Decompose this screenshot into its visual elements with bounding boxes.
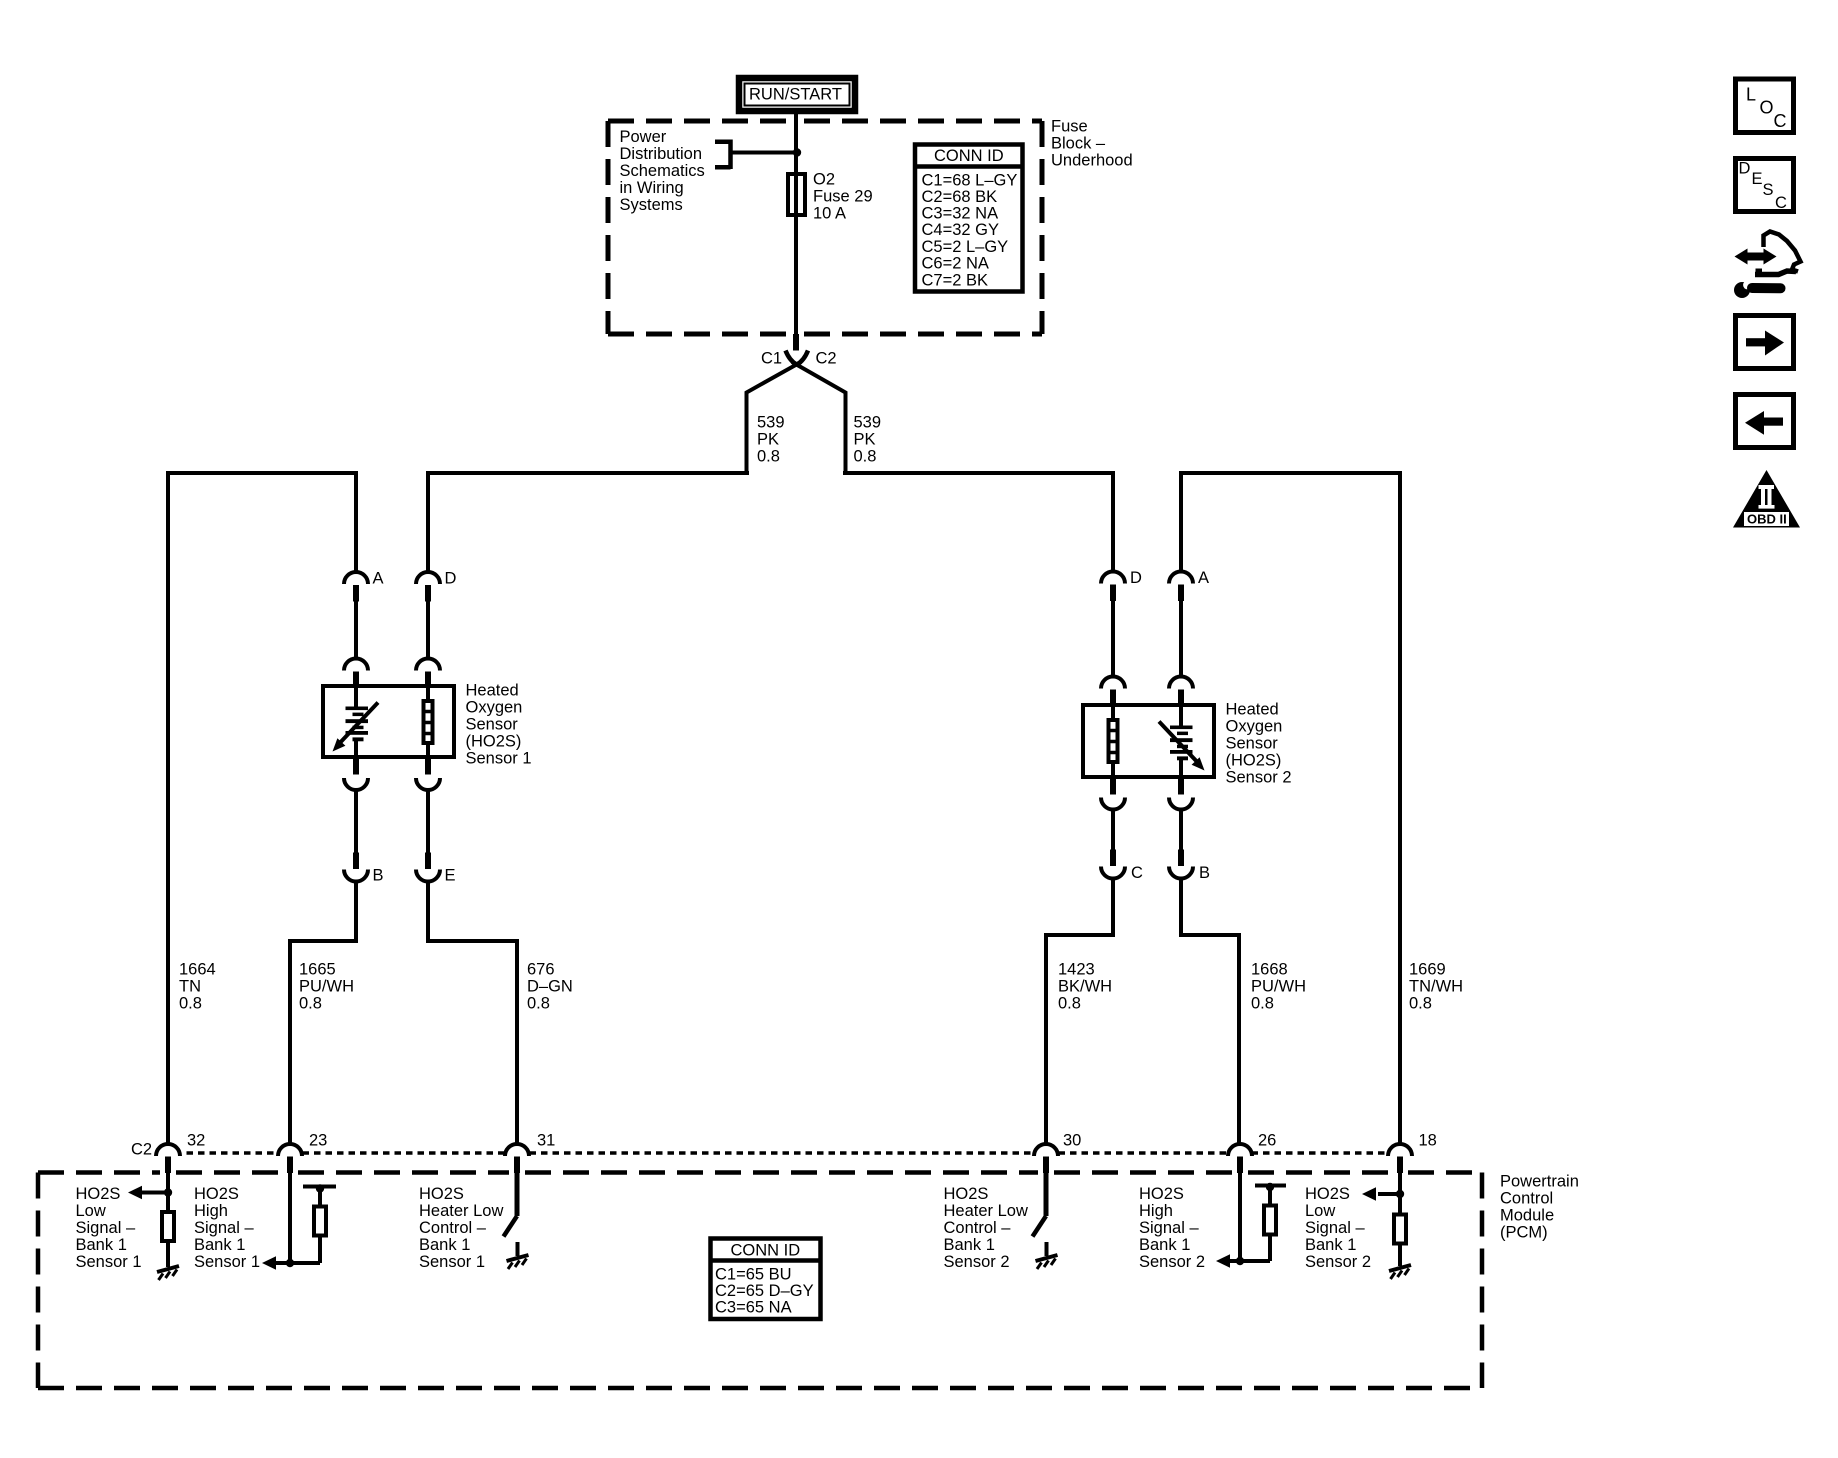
- svg-text:BK/WH: BK/WH: [1058, 978, 1112, 996]
- pin 26 stub: [1237, 1157, 1243, 1174]
- node: pin32 junction dot: [164, 1188, 172, 1196]
- label Heated Oxygen Sensor (HO2S) Sensor 2: [1226, 701, 1292, 787]
- svg-text:Bank 1: Bank 1: [944, 1236, 995, 1254]
- heated oxygen sensor 2 box: [1083, 705, 1214, 777]
- sensor2 sensing element battery stack: [1170, 707, 1193, 776]
- sensor2 heater element: [1109, 707, 1118, 776]
- svg-text:32: 32: [187, 1132, 205, 1150]
- svg-text:1669: 1669: [1409, 961, 1446, 979]
- svg-text:E: E: [1752, 170, 1763, 188]
- svg-text:Systems: Systems: [620, 196, 683, 214]
- sensor2 below-box left arc: [1101, 798, 1125, 810]
- svg-text:Fuse: Fuse: [1051, 118, 1088, 136]
- svg-text:D: D: [445, 570, 457, 588]
- sensor2 below-box right stub: [1178, 778, 1184, 795]
- svg-text:D–GN: D–GN: [527, 978, 573, 996]
- pin 31 connector arc: [505, 1144, 529, 1156]
- sensor1 inline connector right arc: [416, 659, 440, 671]
- resistor pin18: [1394, 1215, 1406, 1244]
- svg-text:(PCM): (PCM): [1500, 1224, 1548, 1242]
- label HO2S Low Signal Bank 1 Sensor 2: [1305, 1185, 1371, 1271]
- svg-text:0.8: 0.8: [757, 448, 780, 466]
- pin 18 stub: [1397, 1157, 1403, 1174]
- label HO2S Heater Low Control Bank 1 Sensor 2: [944, 1185, 1028, 1271]
- svg-text:HO2S: HO2S: [1305, 1185, 1350, 1203]
- fuse block underhood dashed box: [608, 121, 1042, 334]
- sensor1 below-box right stub: [425, 758, 431, 775]
- sensor2 below-box left stub: [1110, 778, 1116, 795]
- svg-text:Heater Low: Heater Low: [944, 1202, 1028, 1220]
- svg-text:Control –: Control –: [944, 1219, 1012, 1237]
- svg-text:(HO2S): (HO2S): [1226, 752, 1282, 770]
- pin 32 connector arc: [156, 1144, 180, 1156]
- svg-text:0.8: 0.8: [179, 995, 202, 1013]
- node: pin26 junction dot: [1236, 1257, 1244, 1265]
- sensor1 inline connector left stub: [353, 672, 359, 689]
- pin 18 internal: low signal sense resistor to ground: [1378, 1173, 1400, 1214]
- node: pin18 junction dot: [1396, 1190, 1404, 1198]
- connector E arc: [416, 870, 440, 882]
- wire: sensor1 heater drop to connector D: [426, 471, 430, 573]
- svg-text:PK: PK: [854, 431, 876, 449]
- wire: A to sensor2 inline connector: [1179, 601, 1183, 677]
- CONN ID table fuse block: [915, 145, 1023, 292]
- label wire 1664 TN 0.8: [179, 961, 216, 1013]
- svg-text:Oxygen: Oxygen: [466, 699, 523, 717]
- sensor2 connector D arc: [1101, 572, 1125, 584]
- svg-text:E: E: [445, 867, 456, 885]
- svg-text:0.8: 0.8: [1058, 995, 1081, 1013]
- label HO2S High Signal Bank 1 Sensor 1: [194, 1185, 260, 1271]
- pin 18 connector arc: [1388, 1144, 1412, 1156]
- label wire 539 PK 0.8 right: [854, 414, 882, 466]
- svg-text:Low: Low: [1305, 1202, 1335, 1220]
- connector D pin stub: [425, 585, 431, 602]
- svg-text:O2: O2: [813, 171, 835, 189]
- fuse O2 Fuse 29 10 A: [788, 171, 873, 223]
- label HO2S High Signal Bank 1 Sensor 2: [1139, 1185, 1205, 1271]
- svg-text:Schematics: Schematics: [620, 162, 705, 180]
- svg-text:1423: 1423: [1058, 961, 1095, 979]
- connector E pin stub: [425, 853, 431, 870]
- svg-text:Signal –: Signal –: [194, 1219, 254, 1237]
- PCM CONN ID table: [711, 1239, 821, 1320]
- sensor2 inline connector left arc: [1101, 677, 1125, 689]
- resistor pin23: [314, 1207, 326, 1236]
- wire: sensor2 heater drop to connector D: [1111, 471, 1115, 573]
- svg-text:D: D: [1130, 569, 1142, 587]
- label Power Distribution Schematics in Wiring Systems: [620, 128, 705, 214]
- node: bias rail dot pin26: [1266, 1183, 1274, 1191]
- svg-text:C3=65 NA: C3=65 NA: [715, 1299, 792, 1317]
- svg-text:676: 676: [527, 961, 555, 979]
- connector B pin stub: [353, 853, 359, 870]
- sensor1 below-box right arc: [416, 778, 440, 790]
- svg-text:C: C: [1774, 111, 1787, 131]
- svg-text:539: 539: [854, 414, 882, 432]
- arrowhead pin18 low signal: [1362, 1187, 1376, 1201]
- svg-text:HO2S: HO2S: [944, 1185, 989, 1203]
- wire: signal bus right horizontal: [1179, 471, 1402, 475]
- pin 32 internal: low signal sense resistor to ground: [140, 1173, 168, 1211]
- pin 23 stub: [287, 1157, 293, 1174]
- svg-text:539: 539: [757, 414, 785, 432]
- wire: signal bus left horizontal: [166, 471, 358, 475]
- svg-text:Bank 1: Bank 1: [76, 1236, 127, 1254]
- svg-text:30: 30: [1063, 1132, 1081, 1150]
- sensor1 sensing element battery stack: [346, 688, 369, 757]
- wire: RUN/START down to fuse: [794, 111, 798, 174]
- svg-text:Sensor 1: Sensor 1: [194, 1253, 260, 1271]
- wire: sensor1 signal drop to connector A: [354, 471, 358, 573]
- svg-text:C: C: [1131, 864, 1143, 882]
- svg-text:Bank 1: Bank 1: [1305, 1236, 1356, 1254]
- svg-text:Sensor 1: Sensor 1: [76, 1253, 142, 1271]
- wire: heater feed right horizontal: [843, 471, 1115, 475]
- PCM dashed border box: [38, 1173, 1482, 1389]
- sensor2 connector A arc: [1169, 572, 1193, 584]
- sensor2 below-box right arc: [1169, 798, 1193, 810]
- svg-text:Distribution: Distribution: [620, 145, 703, 163]
- svg-text:RUN/START: RUN/START: [749, 86, 842, 104]
- svg-text:O: O: [1760, 98, 1774, 118]
- svg-text:1665: 1665: [299, 961, 336, 979]
- sensor2 connector D stub: [1110, 585, 1116, 602]
- wire: E down and jog right to pin 31: [426, 880, 519, 1145]
- label wire 1669 TN/WH 0.8: [1409, 961, 1463, 1013]
- svg-text:Underhood: Underhood: [1051, 152, 1133, 170]
- svg-text:Sensor 2: Sensor 2: [1305, 1253, 1371, 1271]
- svg-text:Signal –: Signal –: [1139, 1219, 1199, 1237]
- sensor2 inline connector left stub: [1110, 690, 1116, 707]
- wire: 539 PK left diagonal: [747, 362, 802, 475]
- ground pin18: [1389, 1265, 1411, 1279]
- svg-text:A: A: [1198, 569, 1209, 587]
- svg-text:Module: Module: [1500, 1207, 1554, 1225]
- svg-text:Low: Low: [76, 1202, 106, 1220]
- wire: sensor2 signal drop to connector A: [1179, 471, 1183, 573]
- wire: heater feed left horizontal: [426, 471, 749, 475]
- svg-text:Sensor 2: Sensor 2: [944, 1253, 1010, 1271]
- svg-text:Bank 1: Bank 1: [194, 1236, 245, 1254]
- pin 30 stub: [1043, 1157, 1049, 1174]
- arrowhead pin23 high signal: [262, 1256, 276, 1270]
- svg-text:PK: PK: [757, 431, 779, 449]
- svg-text:C1=65 BU: C1=65 BU: [715, 1266, 792, 1284]
- label HO2S Low Signal Bank 1 Sensor 1: [76, 1185, 142, 1271]
- label wire 539 PK 0.8 left: [757, 414, 785, 466]
- svg-text:0.8: 0.8: [1409, 995, 1432, 1013]
- arrowhead pin26 high signal: [1216, 1254, 1230, 1268]
- pin 31 stub: [514, 1157, 520, 1174]
- wire: sensor2 left to connector C: [1111, 808, 1115, 850]
- svg-text:Bank 1: Bank 1: [1139, 1236, 1190, 1254]
- node: pin23 junction dot: [286, 1259, 294, 1267]
- svg-text:C1=68 L–GY: C1=68 L–GY: [922, 172, 1018, 190]
- svg-text:18: 18: [1419, 1132, 1437, 1150]
- sensor1 inline connector left arc: [344, 659, 368, 671]
- pin 26 connector arc: [1228, 1144, 1252, 1156]
- svg-text:HO2S: HO2S: [194, 1185, 239, 1203]
- svg-text:CONN ID: CONN ID: [934, 147, 1004, 165]
- wire: resistor to ground pin18: [1398, 1246, 1402, 1267]
- svg-text:C6=2 NA: C6=2 NA: [922, 255, 989, 273]
- wire: 539 PK right diagonal: [792, 362, 846, 475]
- pin 32 stub: [165, 1157, 171, 1174]
- pin 31 internal: heater low control switch: [504, 1173, 518, 1257]
- svg-text:OBD II: OBD II: [1747, 512, 1787, 527]
- schematic reference bracket: [715, 140, 731, 170]
- sensor1 heater element: [424, 688, 433, 757]
- PCM connector dotted line: [187, 1151, 1387, 1155]
- svg-text:(HO2S): (HO2S): [466, 733, 522, 751]
- svg-text:High: High: [1139, 1202, 1173, 1220]
- arrowhead pin32 low signal: [128, 1186, 142, 1200]
- pin 30 connector arc: [1034, 1144, 1058, 1156]
- svg-text:1668: 1668: [1251, 961, 1288, 979]
- svg-text:Sensor 2: Sensor 2: [1226, 769, 1292, 787]
- svg-text:Signal –: Signal –: [76, 1219, 136, 1237]
- svg-text:C2: C2: [131, 1141, 152, 1159]
- sensor1 inline connector right stub: [425, 672, 431, 689]
- icon DESC box: [1736, 159, 1794, 213]
- ignition switch feed RUN/START box: [739, 78, 855, 111]
- connector B arc: [344, 870, 368, 882]
- connector B sensor2 arc: [1169, 867, 1193, 879]
- wire: resistor to ground pin32: [166, 1243, 170, 1267]
- svg-text:C5=2 L–GY: C5=2 L–GY: [922, 238, 1009, 256]
- connector A arc: [344, 572, 368, 584]
- svg-text:Powertrain: Powertrain: [1500, 1173, 1579, 1191]
- wire: sensor1 right to connector E: [426, 789, 430, 853]
- ground pin31: [507, 1255, 529, 1269]
- svg-text:10 A: 10 A: [813, 205, 846, 223]
- connector C pin stub: [1110, 850, 1116, 867]
- connector A pin stub: [353, 585, 359, 602]
- wire: B down and jog right to pin 26: [1179, 877, 1241, 1145]
- wire 1669 TN/WH vertical: [1398, 471, 1402, 1145]
- icon repair instructions (two-way arrow, outline, wrench): [1734, 232, 1801, 299]
- sensor2 variable arrow: [1159, 722, 1205, 771]
- svg-text:26: 26: [1258, 1132, 1276, 1150]
- svg-text:S: S: [1763, 181, 1774, 199]
- icon forward arrow box: [1736, 316, 1794, 369]
- svg-text:C7=2 BK: C7=2 BK: [922, 272, 989, 290]
- wire: D to sensor1 inline connector: [426, 602, 430, 660]
- svg-text:1664: 1664: [179, 961, 216, 979]
- ground pin30: [1036, 1255, 1058, 1269]
- svg-text:Oxygen: Oxygen: [1226, 718, 1283, 736]
- label wire 1668 PU/WH 0.8: [1251, 961, 1306, 1013]
- label wire 1423 BK/WH 0.8: [1058, 961, 1112, 1013]
- svg-text:TN: TN: [179, 978, 201, 996]
- svg-text:Sensor 1: Sensor 1: [419, 1253, 485, 1271]
- svg-text:Control: Control: [1500, 1190, 1553, 1208]
- label Heated Oxygen Sensor (HO2S) Sensor 1: [466, 682, 532, 768]
- connector B sensor2 pin stub: [1178, 850, 1184, 867]
- svg-text:C2: C2: [816, 350, 837, 368]
- svg-text:HO2S: HO2S: [76, 1185, 121, 1203]
- sensor1 below-box left stub: [353, 758, 359, 775]
- connector C1/C2 cup: [786, 351, 809, 365]
- icon OBD II triangle: [1733, 470, 1800, 528]
- sensor1 below-box left arc: [344, 778, 368, 790]
- svg-text:C3=32 NA: C3=32 NA: [922, 205, 999, 223]
- svg-text:Heated: Heated: [1226, 701, 1279, 719]
- svg-text:B: B: [373, 867, 384, 885]
- svg-text:L: L: [1746, 85, 1756, 105]
- connector C1 C2 splice stub: [793, 334, 799, 351]
- svg-text:0.8: 0.8: [1251, 995, 1274, 1013]
- wire: fuse down to fuse block edge: [794, 215, 798, 334]
- node: bias rail dot pin23: [316, 1184, 324, 1192]
- node: junction dot on ignition feed: [793, 148, 801, 156]
- resistor pin32: [162, 1212, 174, 1241]
- svg-text:Signal –: Signal –: [1305, 1219, 1365, 1237]
- svg-text:A: A: [373, 570, 384, 588]
- sensor2 inline connector right arc: [1169, 677, 1193, 689]
- heated oxygen sensor 1 box: [323, 686, 454, 757]
- wire 1664 TN vertical: [166, 471, 170, 1145]
- resistor pin26: [1264, 1206, 1276, 1235]
- svg-text:PU/WH: PU/WH: [1251, 978, 1306, 996]
- ground pin32: [157, 1266, 179, 1280]
- label Powertrain Control Module (PCM): [1500, 1173, 1579, 1242]
- svg-text:0.8: 0.8: [527, 995, 550, 1013]
- svg-text:Block –: Block –: [1051, 135, 1106, 153]
- svg-text:0.8: 0.8: [299, 995, 322, 1013]
- svg-text:C1: C1: [761, 350, 782, 368]
- sensor2 connector A stub: [1178, 585, 1184, 602]
- svg-text:HO2S: HO2S: [419, 1185, 464, 1203]
- svg-text:0.8: 0.8: [854, 448, 877, 466]
- sensor2 inline connector right stub: [1178, 690, 1184, 707]
- svg-text:C: C: [1775, 194, 1787, 212]
- connector D arc: [416, 572, 440, 584]
- wire: C down and jog left to pin 30: [1044, 877, 1115, 1145]
- svg-text:Sensor 1: Sensor 1: [466, 750, 532, 768]
- svg-text:Sensor: Sensor: [1226, 735, 1279, 753]
- pin 23 internal: high signal bias network: [274, 1173, 336, 1264]
- icon LOC box: [1736, 79, 1794, 133]
- pin 23 connector arc: [278, 1144, 302, 1156]
- svg-text:C2=65 D–GY: C2=65 D–GY: [715, 1282, 814, 1300]
- svg-text:TN/WH: TN/WH: [1409, 978, 1463, 996]
- wire: D to sensor2 inline connector: [1111, 601, 1115, 677]
- svg-text:HO2S: HO2S: [1139, 1185, 1184, 1203]
- wire: B down and jog left to pin 23: [288, 880, 358, 1145]
- svg-text:Sensor: Sensor: [466, 716, 519, 734]
- svg-text:PU/WH: PU/WH: [299, 978, 354, 996]
- wire: A to sensor1 inline connector: [354, 602, 358, 660]
- svg-text:31: 31: [537, 1132, 555, 1150]
- svg-text:Heated: Heated: [466, 682, 519, 700]
- svg-text:Power: Power: [620, 128, 667, 146]
- svg-text:Bank 1: Bank 1: [419, 1236, 470, 1254]
- svg-text:B: B: [1199, 864, 1210, 882]
- svg-text:C4=32 GY: C4=32 GY: [922, 221, 1000, 239]
- svg-text:D: D: [1739, 160, 1751, 178]
- svg-text:Heater Low: Heater Low: [419, 1202, 503, 1220]
- svg-text:CONN ID: CONN ID: [731, 1242, 801, 1260]
- svg-text:Sensor 2: Sensor 2: [1139, 1253, 1205, 1271]
- pin 30 internal: heater low control switch: [1033, 1173, 1047, 1257]
- pin 26 internal: high signal bias network: [1228, 1173, 1286, 1262]
- svg-text:in Wiring: in Wiring: [620, 179, 684, 197]
- svg-text:High: High: [194, 1202, 228, 1220]
- svg-text:Control –: Control –: [419, 1219, 487, 1237]
- wire: bracket to ignition feed junction: [733, 151, 798, 155]
- wire: sensor1 left to connector B: [354, 789, 358, 853]
- svg-text:23: 23: [309, 1132, 327, 1150]
- svg-text:Fuse 29: Fuse 29: [813, 188, 873, 206]
- label Fuse Block - Underhood: [1051, 118, 1133, 170]
- label HO2S Heater Low Control Bank 1 Sensor 1: [419, 1185, 503, 1271]
- sensor1 variable arrow: [333, 703, 379, 752]
- label wire 676 D-GN 0.8: [527, 961, 573, 1013]
- wire: sensor2 right to connector B: [1179, 808, 1183, 850]
- label wire 1665 PU/WH 0.8: [299, 961, 354, 1013]
- svg-text:C2=68 BK: C2=68 BK: [922, 188, 998, 206]
- icon back arrow box: [1736, 395, 1794, 448]
- connector C arc: [1101, 867, 1125, 879]
